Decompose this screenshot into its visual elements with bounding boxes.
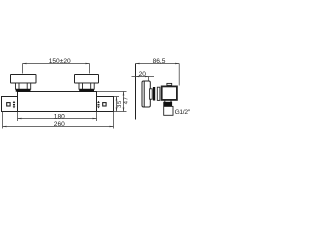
right handle (75, 75, 99, 84)
right handle neck (79, 83, 94, 89)
connector ring 1 (150, 89, 153, 99)
side view wall line (135, 64, 137, 120)
right end protrusion (97, 97, 114, 112)
svg-text:180: 180 (54, 113, 65, 120)
button on top of valve body (167, 83, 172, 85)
left handle (11, 75, 37, 84)
dimension 47 (97, 92, 130, 112)
connector dark ring (153, 87, 155, 101)
dimension 180 (18, 112, 97, 122)
hose nut below threaded connector (164, 106, 173, 115)
left protrusion button square (7, 103, 10, 106)
right handle ring (black band) (79, 89, 94, 92)
svg-text:47: 47 (124, 97, 130, 105)
threaded connector (black) (163, 102, 172, 106)
connector ring 2 (157, 87, 160, 100)
left protrusion arrows (13, 101, 16, 109)
body bar (18, 92, 97, 112)
left handle ring (black band) (16, 89, 31, 92)
svg-text:150±20: 150±20 (49, 58, 71, 65)
dimension 86,5 (136, 58, 180, 85)
label G1/2" (175, 109, 191, 116)
svg-text:260: 260 (54, 121, 65, 128)
dimension 35 (114, 97, 127, 112)
valve square body (side view) (162, 86, 177, 100)
left handle neck (16, 83, 31, 89)
svg-text:G1/2″: G1/2″ (175, 109, 190, 116)
svg-text:86,5: 86,5 (153, 58, 166, 65)
dimension 150±20 (23, 58, 90, 73)
svg-text:35: 35 (117, 100, 123, 108)
dimension 20 (132, 71, 155, 81)
svg-text:20: 20 (139, 71, 147, 78)
left end protrusion (2, 97, 18, 112)
right protrusion arrows (97, 101, 100, 109)
escutcheon (wall plate) (142, 81, 150, 107)
right protrusion button square (103, 103, 106, 106)
outlet neck below valve body (165, 100, 171, 102)
dimension 260 (3, 112, 114, 129)
